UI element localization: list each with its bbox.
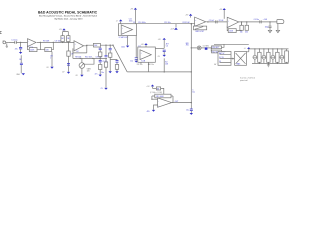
svg-text:C9: C9 [133, 22, 135, 24]
svg-text:D1 RED: D1 RED [203, 45, 210, 47]
ground open x270 [268, 30, 271, 32]
capacitor C15 [276, 49, 279, 64]
svg-text:R8 10K: R8 10K [75, 57, 82, 59]
rail junctions [254, 48, 282, 64]
resistor R8 [67, 36, 70, 42]
resistor R7 [61, 36, 64, 42]
capacitor C2 to ground [15, 42, 23, 52]
ground [99, 75, 102, 77]
feedback U2 [73, 45, 87, 58]
capacitor C16 [285, 49, 289, 64]
power +9V arrow box pin [116, 19, 123, 23]
ground [67, 72, 70, 74]
ground [190, 113, 193, 115]
C6 chain to ground [109, 45, 112, 72]
resistor R17 [212, 44, 226, 53]
svg-text:4V5: 4V5 [186, 45, 189, 47]
power arrow mid [170, 24, 178, 31]
gain network wire [73, 57, 107, 59]
power +9V arrow tone out [158, 38, 169, 49]
node C [62, 42, 63, 43]
wire U7 out [172, 102, 192, 104]
svg-text:(C 100p + R 1M): (C 100p + R 1M) [150, 92, 162, 94]
title block [38, 11, 98, 21]
capacitor to ground bottom bus [186, 90, 195, 113]
ground [22, 73, 25, 75]
op-amp U6 final [227, 17, 239, 27]
node out [269, 21, 270, 22]
op-amp U5 tone in box [138, 47, 156, 62]
feedback wire U1 [28, 42, 54, 49]
footswitch SW1 [194, 26, 207, 33]
LED D1 [191, 45, 218, 50]
wire U4 out [206, 21, 228, 23]
capacitor C1 [11, 40, 17, 44]
input jack J1 [3, 41, 9, 47]
wire switch diagonal [113, 45, 127, 72]
+ input to ground U7 [147, 105, 158, 113]
capacitor to ground under IC1 [121, 36, 127, 49]
feedback U6 [227, 22, 241, 33]
resistor R12 series [93, 43, 100, 47]
svg-text:C10 100n: C10 100n [138, 22, 146, 24]
node B [53, 42, 54, 43]
wire input to opamp1 [8, 41, 27, 43]
diode D5 [280, 49, 284, 64]
wire U6 out [239, 21, 277, 23]
power +9V arrow U4 [185, 14, 192, 18]
ground [104, 88, 107, 90]
output jack [277, 20, 284, 31]
svg-text:C2 4u7: C2 4u7 [209, 20, 215, 22]
ground [135, 61, 138, 63]
svg-text:C4 10u: C4 10u [254, 19, 260, 21]
ground [50, 67, 53, 69]
svg-text:10u: 10u [130, 60, 133, 62]
svg-text:B&D ACOUSTIC PEDAL SCHEMATIC: B&D ACOUSTIC PEDAL SCHEMATIC [38, 11, 98, 15]
svg-text:IC1A TL072: IC1A TL072 [119, 36, 128, 39]
svg-text:By Marko Dark - January 2013: By Marko Dark - January 2013 [55, 17, 84, 20]
power +9V arrow tone [141, 43, 148, 47]
svg-text:10u: 10u [101, 72, 104, 74]
wire to mixer [127, 71, 191, 73]
svg-text:OUT: OUT [175, 101, 179, 103]
svg-text:R10 10K: R10 10K [85, 57, 93, 59]
wire opamp2 out [84, 44, 113, 47]
+9V rail [214, 43, 249, 45]
svg-text:R16 4K7: R16 4K7 [212, 47, 219, 49]
svg-text:47u: 47u [15, 49, 18, 51]
svg-text:SW1 DPDT: SW1 DPDT [195, 31, 204, 33]
ground open jack [276, 30, 279, 32]
svg-text:100n: 100n [129, 21, 133, 23]
svg-text:10u: 10u [192, 92, 195, 94]
ground power [267, 63, 270, 66]
svg-text:R3 10K: R3 10K [43, 41, 50, 43]
trimpot GAIN [79, 58, 94, 74]
svg-text:100n: 100n [121, 47, 125, 49]
power +9V arrow [59, 28, 66, 31]
op-amp U7 mixer [151, 98, 171, 108]
op-amp U3 in box IC1 [119, 22, 137, 39]
capacitor C4 series [254, 19, 268, 24]
diode D3 [262, 49, 266, 64]
svg-text:C8 100n: C8 100n [95, 57, 102, 59]
wire tone box to column [155, 47, 164, 49]
resistor R5 [45, 48, 52, 52]
capacitor chain x136 to ground [130, 36, 141, 63]
page edge mark [0, 31, 2, 33]
long vertical mix bus [190, 24, 192, 105]
svg-text:+: + [141, 52, 142, 54]
svg-text:+9: +9 [244, 48, 246, 50]
capacitor to gnd x270 [265, 22, 272, 30]
power +9V arrow IC1 [130, 8, 137, 11]
C5 long chain to ground [101, 45, 108, 91]
capacitor C2 series [209, 20, 225, 23]
diode D2 [253, 49, 257, 64]
wire [134, 10, 136, 24]
capacitor C14 [267, 49, 270, 64]
resistor to gnd x246 [245, 22, 248, 34]
power +9V arrow U6 [219, 8, 226, 19]
ground [152, 110, 155, 112]
svg-text:22K 10n: 22K 10n [137, 64, 143, 66]
svg-text:R15 10K: R15 10K [183, 22, 191, 24]
ground [76, 75, 84, 77]
svg-text:+: + [122, 28, 123, 30]
node D [68, 42, 69, 43]
svg-text:10u: 10u [186, 110, 189, 112]
ground [158, 55, 166, 58]
svg-text:C6: C6 [166, 46, 168, 48]
node out1 [40, 42, 41, 43]
ground [109, 71, 112, 73]
op-amp U4 output buffer [195, 17, 206, 27]
op-amp U1 [28, 39, 37, 50]
wire IC1 out [136, 23, 195, 25]
svg-text:C13 10u: C13 10u [164, 22, 171, 24]
svg-text:40k: 40k [245, 32, 248, 34]
resistor to gnd x241 [240, 22, 243, 34]
C9 chain to ground [95, 47, 108, 75]
power +9V arrow rail [244, 47, 251, 52]
svg-text:+9: +9 [116, 20, 118, 22]
wire to switch row [164, 58, 169, 72]
filter rail bottom [252, 62, 289, 64]
resistor R2 [29, 48, 37, 52]
svg-text:New Heavy-Button Version - Sec: New Heavy-Button Version - Second 'Tone … [39, 14, 97, 17]
op-amp U2 [74, 41, 84, 51]
svg-text:C5: C5 [101, 88, 103, 90]
capacitor C13 [258, 49, 261, 64]
svg-text:2: 2 [50, 57, 51, 59]
ground [126, 46, 129, 48]
power +9V arrow U7 [146, 85, 154, 89]
svg-text:+4V5: +4V5 [170, 29, 174, 31]
filter rail top [249, 48, 289, 50]
svg-text:4V5: 4V5 [147, 111, 150, 113]
bias divider wires [63, 30, 69, 42]
svg-text:100p: 100p [265, 27, 269, 29]
tone box pin stubs and labels [137, 61, 154, 72]
feedback U7 [152, 94, 173, 102]
note text [240, 78, 255, 82]
resistor R6 to ground [62, 42, 74, 73]
resistor R1 to ground [16, 55, 23, 76]
wire opamp1 out [37, 41, 74, 43]
ground [115, 71, 118, 73]
diode D4 [271, 49, 275, 64]
C7 chain to ground [110, 60, 119, 72]
svg-text:C1 10u: C1 10u [11, 40, 17, 42]
resistor R18 [153, 87, 164, 96]
node A junction [20, 42, 21, 43]
svg-text:40k: 40k [240, 32, 243, 34]
svg-text:47u: 47u [95, 73, 98, 75]
resistor R16 [211, 46, 221, 52]
svg-text:pinout std: pinout std [240, 79, 247, 82]
resistor R4 to ground [47, 52, 54, 70]
polarity protection IC box [235, 52, 247, 66]
capacitor C6 [163, 50, 166, 55]
DC input block [214, 52, 233, 66]
ground [19, 52, 22, 54]
